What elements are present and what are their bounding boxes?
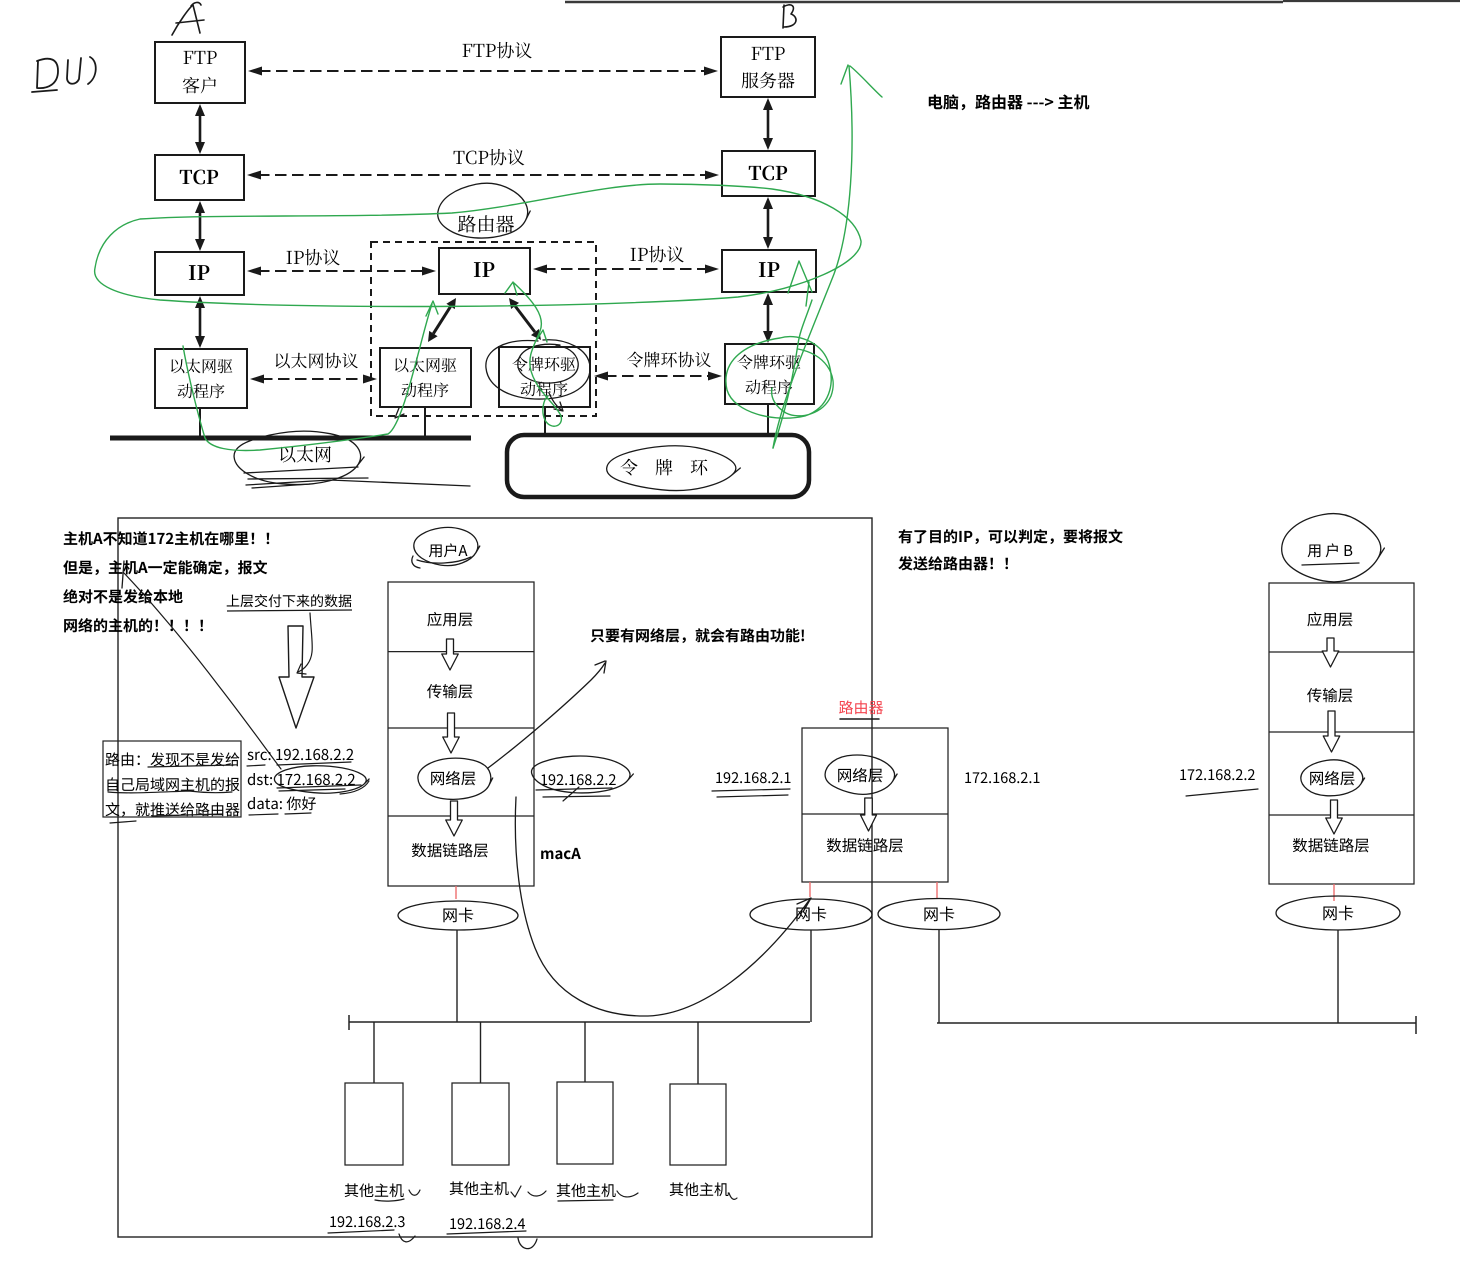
- underline .2.4: [447, 1231, 526, 1234]
- squiggle after host3: [617, 1191, 638, 1197]
- label NIC router right: [924, 907, 954, 922]
- green arrow up: [773, 65, 882, 448]
- other host box 2: [452, 1083, 509, 1165]
- label router red: [839, 700, 883, 714]
- label NIC A: [443, 908, 473, 923]
- v after .2.3: [399, 1234, 415, 1242]
- box IP A: [155, 252, 244, 295]
- wire router NIC right to bus: [938, 929, 940, 1023]
- wire driverB-token ring: [767, 404, 769, 435]
- box TCP B: [722, 151, 815, 196]
- green loop around IP row: [95, 184, 861, 306]
- routing note box: [103, 741, 241, 817]
- arrow B network-datalink: [1326, 800, 1343, 834]
- label src: [247, 749, 353, 760]
- arrow TCP protocol: [258, 174, 708, 176]
- green small arrowhead: [536, 330, 547, 342]
- label other host 1: [345, 1183, 404, 1197]
- label B transport layer: [1307, 688, 1352, 702]
- arrow FTP-TCP B: [767, 107, 770, 141]
- label B application layer: [1307, 612, 1352, 627]
- label 172.168.2.2: [1180, 769, 1254, 780]
- host B stack: [1269, 583, 1414, 884]
- box FTP server B: [721, 37, 815, 97]
- squiggle before host3: [528, 1191, 546, 1196]
- sep B network/datalink: [1269, 814, 1414, 816]
- label ethernet: [280, 446, 330, 463]
- black hook below tr driver: [549, 393, 563, 411]
- note computer router host: [929, 94, 1090, 110]
- label A application layer: [427, 612, 472, 627]
- small curved arrow from underline: [297, 613, 312, 674]
- scribble under ethernet: [244, 467, 470, 488]
- dashed router box: [371, 242, 596, 416]
- green loops around token ring driver B: [726, 337, 833, 419]
- label 192.168.2.1: [716, 772, 790, 783]
- wire router NIC left to bus: [810, 930, 812, 1022]
- green long stroke along ethernet up to router IP: [183, 301, 438, 451]
- circle around dst IP: [274, 766, 369, 793]
- label other host 4: [670, 1182, 729, 1196]
- other host box 1: [345, 1083, 403, 1165]
- label dst: [248, 773, 355, 785]
- arrow to routing note: [488, 661, 606, 768]
- circle around user B: [1282, 514, 1385, 582]
- scan edge line right part: [1283, 0, 1460, 2]
- label NIC router left: [796, 907, 826, 922]
- circle around A network layer: [418, 758, 493, 799]
- box token ring driver router: [499, 347, 590, 407]
- arrow IP-driver B: [767, 302, 770, 334]
- label A transport layer: [427, 684, 472, 698]
- NIC ellipse router left: [750, 899, 872, 930]
- box IP B: [722, 250, 816, 292]
- underline user B: [1302, 563, 1359, 565]
- circle around user A: [414, 527, 480, 565]
- arrow token ring protocol: [605, 375, 711, 377]
- arrow IP-tr driver router: [515, 306, 535, 332]
- underline 172.168.2.2: [1186, 789, 1258, 796]
- label macA: [541, 848, 581, 859]
- box IP router: [439, 248, 530, 294]
- label router top: [458, 215, 514, 233]
- sep A app/transport: [388, 651, 534, 653]
- underline routing line2: [108, 791, 232, 793]
- note network layer routing: [591, 628, 804, 643]
- arrow IP protocol left: [258, 270, 425, 272]
- ethernet bus: [110, 436, 471, 441]
- label 192.168.2.4: [450, 1218, 525, 1229]
- wire driverA-ethernet: [199, 408, 201, 436]
- handwritten B: [783, 5, 796, 28]
- wire bus to host 4: [697, 1022, 699, 1084]
- label NIC B: [1323, 906, 1353, 921]
- circle around ethernet label: [234, 431, 364, 484]
- arrow B app-transport: [1322, 638, 1339, 667]
- arrow router network-datalink: [861, 798, 877, 831]
- circle around B network layer: [1301, 760, 1365, 796]
- red tick router right: [936, 882, 938, 898]
- label data from upper layer: [227, 594, 352, 607]
- arrow IP-eth driver router: [433, 306, 450, 333]
- scribble DU: [32, 57, 96, 92]
- underline data: [249, 813, 311, 815]
- black tick under eth driver router: [395, 408, 404, 418]
- arrow A transport-network: [443, 713, 460, 753]
- dash below routing box: [110, 821, 136, 823]
- scribbles under dst: [277, 781, 369, 794]
- note host A line1: [64, 531, 269, 545]
- token ring network: [507, 435, 809, 497]
- right LAN bus: [937, 1022, 1416, 1024]
- label A datalink layer: [412, 843, 488, 857]
- label 192.168.2.2: [541, 774, 615, 785]
- other host box 3: [557, 1082, 613, 1164]
- scribbles under 192.168.2.2: [536, 787, 612, 801]
- sep A transport/network: [388, 727, 534, 729]
- arrow B transport-network: [1323, 711, 1340, 752]
- wire NIC B to bus: [1337, 930, 1339, 1023]
- long diagonal line: [123, 572, 281, 769]
- underline router label: [840, 718, 879, 720]
- label data: [248, 796, 316, 810]
- mark after host1: [409, 1190, 420, 1195]
- check after host2: [511, 1186, 521, 1197]
- label 172.168.2.1: [965, 772, 1039, 783]
- sep B app/transport: [1269, 651, 1414, 653]
- green check in IP B: [788, 261, 812, 306]
- other host box 4: [670, 1084, 726, 1165]
- underline .2.3: [328, 1230, 394, 1233]
- label user B: [1308, 543, 1353, 557]
- routing note line1: [106, 752, 240, 766]
- box ethernet driver router: [380, 348, 471, 407]
- arrow FTP protocol: [259, 70, 707, 72]
- arrow TCP-IP A: [199, 210, 202, 242]
- circle around router label: [438, 183, 530, 238]
- wire bus to host 2: [480, 1022, 482, 1083]
- underline 192.168.2.1: [712, 789, 790, 797]
- NIC ellipse router right: [878, 899, 1000, 930]
- right bus end tick: [1415, 1016, 1417, 1034]
- sep router network/datalink: [802, 813, 948, 815]
- NIC ellipse host A: [398, 901, 518, 930]
- circle around token ring label: [607, 446, 741, 491]
- v mark below rect bottom: [518, 1238, 537, 1249]
- wire router eth driver-ethernet: [424, 407, 426, 436]
- left LAN bus: [349, 1021, 810, 1023]
- big LAN rectangle: [118, 518, 872, 1237]
- box TCP A: [155, 155, 244, 200]
- label router network layer: [838, 768, 882, 783]
- arrow FTP-TCP A: [199, 113, 202, 145]
- label router datalink layer: [827, 838, 903, 852]
- green stroke down to loop: [773, 300, 812, 448]
- tail on user A circle: [412, 556, 471, 568]
- underline data label: [227, 610, 352, 611]
- green wavy line through token ring driver router: [505, 282, 561, 426]
- underline src: [247, 762, 351, 766]
- label other host 2: [450, 1181, 509, 1195]
- wire bus to host 3: [584, 1022, 586, 1082]
- arrow IP-driver A: [199, 305, 202, 339]
- label B network layer: [1310, 771, 1354, 786]
- note destination IP line1: [898, 529, 1122, 544]
- label A network layer: [431, 771, 475, 786]
- arrow IP protocol right: [544, 268, 708, 270]
- arrow TCP-IP B: [767, 206, 770, 240]
- black loops around router tr driver: [486, 340, 590, 399]
- underline routing line3: [152, 814, 222, 816]
- circle around router network layer: [825, 755, 897, 794]
- box FTP client A: [155, 42, 245, 103]
- label user A: [429, 543, 468, 557]
- underline routing line1: [148, 765, 234, 767]
- handwritten A: [172, 2, 204, 35]
- NIC ellipse host B: [1276, 896, 1400, 930]
- label other host 3: [557, 1183, 616, 1197]
- tick on note: [122, 561, 124, 588]
- box ethernet driver A: [155, 349, 247, 408]
- arrow A network-datalink: [446, 801, 463, 836]
- box token ring driver B: [725, 344, 814, 404]
- tick after host4: [729, 1193, 737, 1199]
- sep B transport/network: [1269, 731, 1414, 733]
- arrow ethernet protocol: [261, 378, 366, 380]
- hand-drawn hollow arrow down: [279, 626, 314, 728]
- wire router tr driver-token ring: [544, 407, 546, 435]
- label token ring: [620, 459, 707, 476]
- label B datalink layer: [1293, 838, 1369, 852]
- underline host1: [375, 1199, 404, 1201]
- scan edge line left part: [565, 1, 1283, 4]
- curved arrow macA to router NIC: [515, 797, 811, 1016]
- red tick router left: [809, 882, 811, 897]
- wire bus to host 1: [373, 1022, 375, 1083]
- router stack: [802, 728, 948, 882]
- underline host3: [558, 1200, 613, 1201]
- circle around 192.168.2.2: [532, 756, 634, 793]
- host A stack: [388, 582, 534, 886]
- red tick host B: [1333, 884, 1335, 901]
- arrow A app-transport: [442, 639, 459, 670]
- red tick host A: [455, 886, 457, 899]
- left bus end tick: [348, 1015, 350, 1030]
- sep A network/datalink: [388, 815, 534, 817]
- wire NIC A to bus: [456, 930, 458, 1022]
- label 192.168.2.3: [330, 1216, 404, 1227]
